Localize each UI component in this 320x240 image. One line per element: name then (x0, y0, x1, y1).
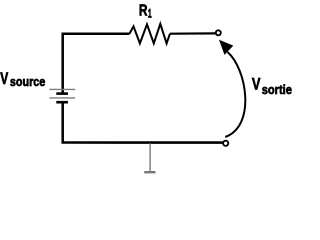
svg-text:V: V (252, 76, 261, 94)
battery V_source : long plate 1 (50, 88, 76, 90)
resistor R1 (129, 24, 170, 44)
battery V_source : long plate 2 (50, 97, 76, 99)
terminal node (top, sortie +) (216, 30, 221, 35)
wire resistor right to top terminal (170, 32, 216, 34)
arrowhead (219, 40, 233, 55)
ground (144, 143, 155, 172)
battery V_source : short plate 1 (56, 92, 68, 95)
svg-text:1: 1 (148, 7, 152, 21)
svg-text:R: R (139, 3, 148, 20)
svg-text:V: V (0, 70, 8, 88)
wire bottom rail (62, 141, 223, 144)
svg-text:sortie: sortie (262, 82, 292, 97)
battery V_source : short plate 2 (56, 101, 68, 104)
wire from battery top to resistor left (via top-left corner) (63, 34, 130, 94)
wire battery bottom to bottom rail (61, 102, 64, 142)
svg-text:source: source (10, 74, 45, 89)
terminal node (bottom, sortie -) (223, 141, 228, 146)
arrow V_sortie (curved measurement arrow) (225, 52, 245, 137)
